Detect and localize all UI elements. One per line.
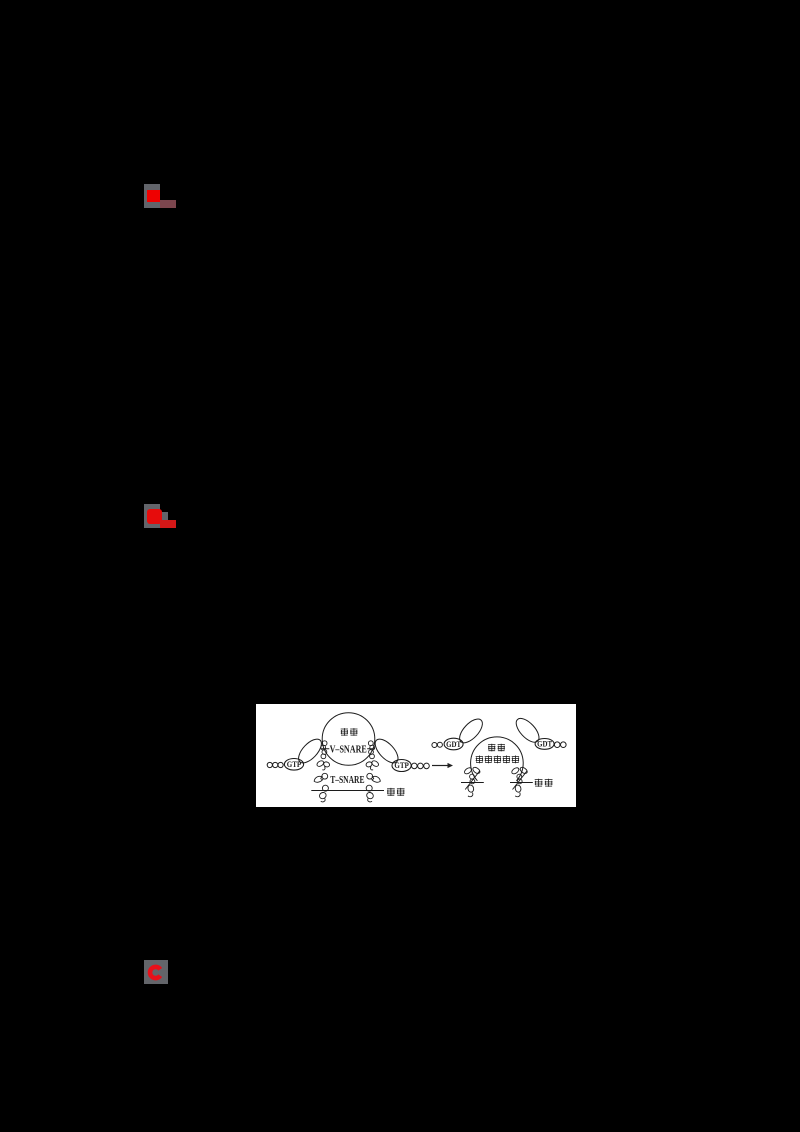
vesicle big circle: [322, 713, 375, 766]
GTP ellipse right: [392, 760, 411, 772]
target membrane segment left (right drawing): [461, 782, 484, 784]
target membrane segment right (right drawing): [510, 782, 533, 784]
GDT ellipse right: [535, 739, 554, 750]
marker icon C (grey square with red C): [144, 960, 168, 984]
membrane anchor circle left: [322, 785, 328, 791]
reaction arrow: [432, 765, 448, 767]
right tilted ellipse (Rab protein): [371, 735, 402, 766]
V-SNARE label with tie dashes: [322, 748, 376, 750]
right T-SNARE wing protein: [367, 773, 381, 782]
left bead chain on vesicle edge: [321, 741, 327, 759]
label 靶膜 (target membrane) left drawing: [387, 788, 395, 796]
marker icon B (red badge): [144, 504, 160, 528]
right lower blob protein: [365, 760, 379, 770]
right drawing right tilted ellipse: [512, 715, 543, 746]
below-membrane squiggle left: [318, 791, 327, 802]
right drawing: fused vesicle open arc: [471, 737, 524, 781]
below-membrane squiggle right: [366, 791, 375, 802]
svg-text:GTP: GTP: [394, 761, 409, 770]
wire right oligosaccharide chain: [412, 763, 430, 769]
wire chain left of GDT: [432, 742, 443, 747]
label 囊泡 (right): [488, 744, 495, 752]
svg-text:V–SNARE: V–SNARE: [330, 744, 367, 755]
wire left oligosaccharide chain (three small circles): [267, 762, 283, 767]
SNARE vesicle fusion diagram: [256, 704, 576, 807]
left T-SNARE wing protein: [314, 773, 328, 782]
left tilted ellipse (Rab protein): [295, 735, 326, 766]
right bead chain on vesicle edge: [368, 741, 374, 759]
label 靶膜 (target membrane) right drawing: [535, 779, 543, 787]
svg-text:GDT: GDT: [446, 740, 462, 749]
svg-text:GDT: GDT: [537, 740, 553, 749]
label 蛋白复合体 (protein complex): [476, 756, 483, 764]
membrane anchor circle right: [366, 785, 372, 791]
GTP ellipse left: [284, 759, 303, 771]
marker icon A (red square badge): [144, 184, 160, 208]
right drawing left tilted ellipse: [456, 715, 487, 746]
wire chain right of GDT: [554, 742, 566, 748]
label 囊泡 (vesicle): [341, 728, 348, 736]
svg-text:T–SNARE: T–SNARE: [330, 775, 364, 786]
GDT ellipse left: [444, 738, 463, 750]
target membrane line (left drawing): [311, 790, 384, 792]
fused SNARE complex squiggle left: [463, 766, 481, 797]
fused SNARE complex squiggle right: [511, 766, 529, 797]
left lower blob protein: [316, 760, 330, 770]
